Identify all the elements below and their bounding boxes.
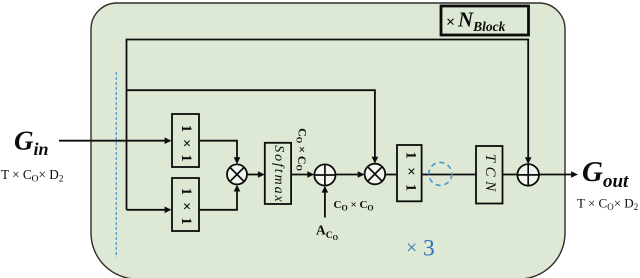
svg-text:×: × [406,237,417,259]
svg-text:1 × 1: 1 × 1 [178,188,194,227]
repeat-count box x N_Block [441,6,529,35]
label A_CO (bias) [316,223,339,243]
softmax box [265,143,291,204]
wire: input to lower 1x1 conv [127,207,172,214]
multiplier node 2 (circle with X) [365,164,386,185]
svg-text:Gout: Gout [582,156,629,192]
svg-text:TCN: TCN [482,154,498,196]
conv box 1x1 output [397,145,422,201]
wire: TCN to adder 2 [503,174,518,176]
svg-text:Gin: Gin [14,126,49,160]
wire: adder 1 to multiplier 2 [336,171,365,178]
label C_O x C_O (horizontal, near bias) [334,199,374,212]
svg-text:T × CO× D2: T × CO× D2 [1,167,64,185]
wire: multiplier 1 to softmax [247,171,265,178]
svg-text:CO × CO: CO × CO [295,128,310,171]
wire: multiplier 2 to 1x1 conv [385,174,397,176]
svg-text:Softmax: Softmax [271,145,286,203]
label T x C_O x D_2 (input dims) [1,167,64,185]
label G_in [14,126,49,160]
svg-text:3: 3 [423,236,435,262]
svg-text:×: × [446,14,455,31]
conv box 1x1 lower [172,178,199,231]
adder node 1 (circle with plus) [314,164,335,185]
svg-text:1 × 1: 1 × 1 [178,125,194,164]
adder node 2 (final, circle with plus) [517,164,539,186]
blue dashed feature-split line [115,72,117,258]
wire: G_in main input to upper 1x1 conv [59,137,172,144]
blue dashed circle (optional connection point) [429,162,452,185]
wire: left vertical branch bus [126,39,128,210]
wire: bias A input arrow into adder 1 [322,186,329,218]
wire: value line to second multiplier [127,90,379,163]
wire: adder 2 to G_out [539,171,578,178]
wire: softmax to adder 1 [291,171,314,178]
svg-text:T × CO× D2: T × CO× D2 [577,196,638,212]
multiplier node 1 (circle with X) [227,164,247,184]
conv box 1x1 upper [172,114,199,167]
label G_out [582,156,629,192]
svg-text:1 × 1: 1 × 1 [402,151,418,193]
label T x C_O x D_2 (output dims) [577,196,638,212]
wire: 1x1 conv to TCN [422,174,476,176]
wire: upper conv to multiplier 1 [199,141,240,165]
label C_O x C_O (vertical, after softmax) [295,128,310,171]
TCN box [476,146,503,204]
outer block boundary (rounded rectangle) [91,3,565,278]
wire: lower conv to multiplier 1 [199,185,240,210]
wire: top residual line to final adder [127,40,532,165]
label x 3 (blue repeat count) [406,236,435,262]
